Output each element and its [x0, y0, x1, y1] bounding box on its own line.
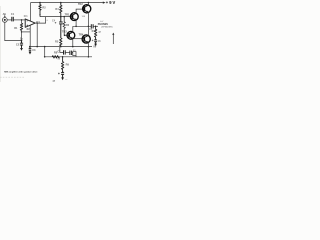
node dot rail/output column: [36, 46, 38, 48]
node dot TR3 base: [64, 35, 66, 37]
node dot rail/TR2 collector: [88, 2, 90, 4]
svg-text:+9V: +9V: [106, 0, 116, 5]
svg-text:TR2: TR2: [78, 3, 83, 6]
capacitor C3: [29, 47, 32, 52]
svg-text:TR3: TR3: [62, 29, 67, 33]
node dot joint top: [44, 46, 46, 48]
ground arrow left: [20, 48, 23, 51]
svg-text:PHONES: PHONES: [98, 23, 109, 26]
wire +9V top rail: [31, 2, 104, 4]
capacitor C2: [20, 41, 23, 49]
node dot output column: [37, 22, 38, 23]
background: [0, 0, 120, 88]
node dot bottom rail/R9: [62, 56, 64, 58]
svg-text:0V: 0V: [93, 45, 96, 49]
wire bottom rail: [45, 56, 92, 58]
node dot rail/R2: [39, 2, 41, 4]
speaker arrow: [112, 34, 114, 44]
svg-text:R9: R9: [66, 62, 70, 66]
transistor TR3: [67, 31, 75, 39]
node dot rail/R5: [60, 46, 62, 48]
node dot feedback: [21, 31, 22, 32]
wire C8 to switch: [72, 51, 73, 53]
wire TR1 collector to TR2 base: [76, 9, 84, 13]
wire bypass row: [60, 47, 64, 53]
ground arrow bottom: [61, 77, 64, 80]
node dot TR1 emitter: [75, 26, 77, 28]
wire socket sleeve down and right: [5, 23, 22, 41]
wire switch to rail: [75, 56, 77, 57]
svg-text:IC1: IC1: [24, 15, 28, 18]
node dot R9/C9: [62, 71, 63, 72]
svg-text:MW amplifier with speaker driv: MW amplifier with speaker drive: [4, 71, 38, 74]
wire TR3 emitter down to rail: [72, 39, 74, 47]
wire output node line: [73, 25, 92, 27]
svg-text:R1: R1: [14, 26, 18, 30]
svg-text:4u7: 4u7: [100, 20, 103, 23]
node dot sleeve/R1: [21, 40, 23, 42]
capacitor C1: [12, 17, 14, 22]
node dot R7 top: [95, 26, 97, 28]
node dot TR2/TR4: [88, 26, 90, 28]
wire V+ drop to op-amp: [30, 3, 32, 21]
plus mark C6: [92, 40, 94, 42]
resistor R5: [60, 38, 62, 47]
resistor R1: [20, 23, 22, 30]
node dot joint bottom: [44, 56, 46, 58]
wire base line: [40, 16, 72, 18]
wire TR3 emitter to TR4 base: [73, 38, 84, 40]
op-amp minus mark: [26, 20, 28, 22]
wire R1 bottom: [21, 30, 23, 40]
ground arrow right: [94, 44, 97, 47]
svg-text:C2: C2: [16, 42, 20, 46]
wire op-amp output up-join: [35, 17, 45, 24]
wire input node down: [21, 20, 23, 23]
node dot base branch: [63, 16, 65, 18]
transistor TR2: [83, 5, 91, 13]
node dot rail left end: [29, 46, 31, 48]
aerial arrow: [4, 14, 6, 16]
+9V arrowhead: [103, 2, 106, 4]
resistor R8: [52, 56, 59, 58]
switch S1 box: [73, 52, 76, 56]
ground arrow centre-left: [29, 52, 32, 55]
op-amp plus mark: [26, 25, 28, 27]
wire C1 to op-amp input: [13, 19, 25, 21]
node dot R4/base wire: [60, 16, 62, 18]
wire after C5: [93, 25, 98, 27]
capacitor C7: [64, 50, 66, 54]
transistor TR4: [82, 35, 90, 43]
svg-text:TR4: TR4: [79, 33, 84, 36]
wire TR4 collector up to output node: [87, 26, 89, 35]
wire feedback stub: [22, 31, 31, 33]
wire 0V rail: [30, 46, 92, 48]
wire TR2 collector to rail: [87, 3, 89, 6]
wire TR1 emitter down: [75, 20, 77, 26]
capacitor C4: [59, 17, 63, 38]
node dot rail/R4: [60, 2, 62, 4]
capacitor C9: [61, 73, 64, 78]
resistor R2 top bias: [39, 3, 41, 17]
resistor R9: [61, 57, 63, 73]
node dot rail/TR3: [72, 46, 74, 48]
svg-text:R5: R5: [55, 40, 59, 44]
node dot TR4 emitter/bottom rail: [88, 56, 90, 58]
wire TR3 collector up: [72, 26, 74, 32]
svg-text:TR1: TR1: [65, 12, 70, 16]
node dot TR4 emitter/0V: [88, 46, 90, 48]
plus mark C9: [58, 73, 60, 75]
plus mark C4: [55, 22, 57, 24]
wire TR4 emitter down: [87, 43, 89, 57]
capacitor C6: [94, 40, 97, 44]
input socket SK1: [2, 18, 7, 23]
stray mark: [65, 79, 67, 81]
svg-text:(SPEAKER): (SPEAKER): [101, 26, 112, 29]
resistor R6 drop to TR3: [63, 17, 69, 36]
page fold dashes: [0, 76, 25, 78]
wire socket to C1: [7, 19, 12, 21]
resistor R7: [94, 26, 96, 39]
svg-text:AE: AE: [3, 13, 7, 16]
page edge: [0, 6, 1, 82]
node dot input/R1: [21, 19, 23, 21]
wire C7 to C8: [65, 51, 70, 53]
resistor R4: [60, 3, 62, 17]
wire TR2 emitter to output node: [87, 12, 89, 26]
wire op-amp inverting input down: [29, 25, 31, 46]
transistor TR1: [70, 13, 78, 21]
op-amp IC1: [25, 19, 35, 27]
capacitor C8: [70, 51, 72, 55]
capacitor C5 series: [91, 24, 93, 28]
svg-text:C3: C3: [32, 48, 36, 52]
wire rails joint: [44, 47, 46, 57]
plus polarity mark: [39, 14, 41, 16]
svg-text:R2: R2: [42, 6, 46, 10]
wire output column to 0V rail: [36, 23, 38, 46]
